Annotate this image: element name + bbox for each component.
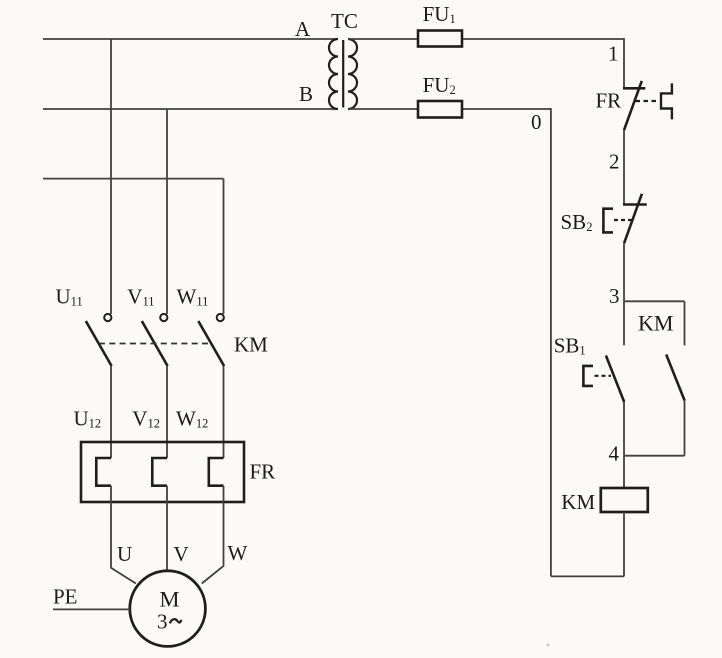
- svg-text:M: M: [160, 587, 180, 612]
- svg-text:W: W: [228, 541, 248, 565]
- svg-text:U: U: [117, 542, 132, 566]
- svg-text:V: V: [174, 542, 189, 566]
- svg-text:1: 1: [608, 42, 619, 66]
- svg-text:KM: KM: [561, 490, 595, 514]
- svg-text:A: A: [295, 17, 311, 41]
- svg-text:2: 2: [609, 150, 620, 174]
- svg-text:KM: KM: [234, 332, 268, 356]
- svg-text:FR: FR: [250, 460, 276, 484]
- svg-text:3: 3: [609, 284, 620, 308]
- svg-text:B: B: [299, 82, 313, 106]
- svg-text:TC: TC: [331, 9, 358, 33]
- svg-text:0: 0: [531, 110, 542, 134]
- svg-text:PE: PE: [53, 585, 78, 609]
- svg-text:4: 4: [609, 442, 620, 466]
- svg-text:3: 3: [157, 610, 168, 634]
- svg-text:KM: KM: [638, 310, 673, 335]
- svg-text:FR: FR: [596, 89, 622, 113]
